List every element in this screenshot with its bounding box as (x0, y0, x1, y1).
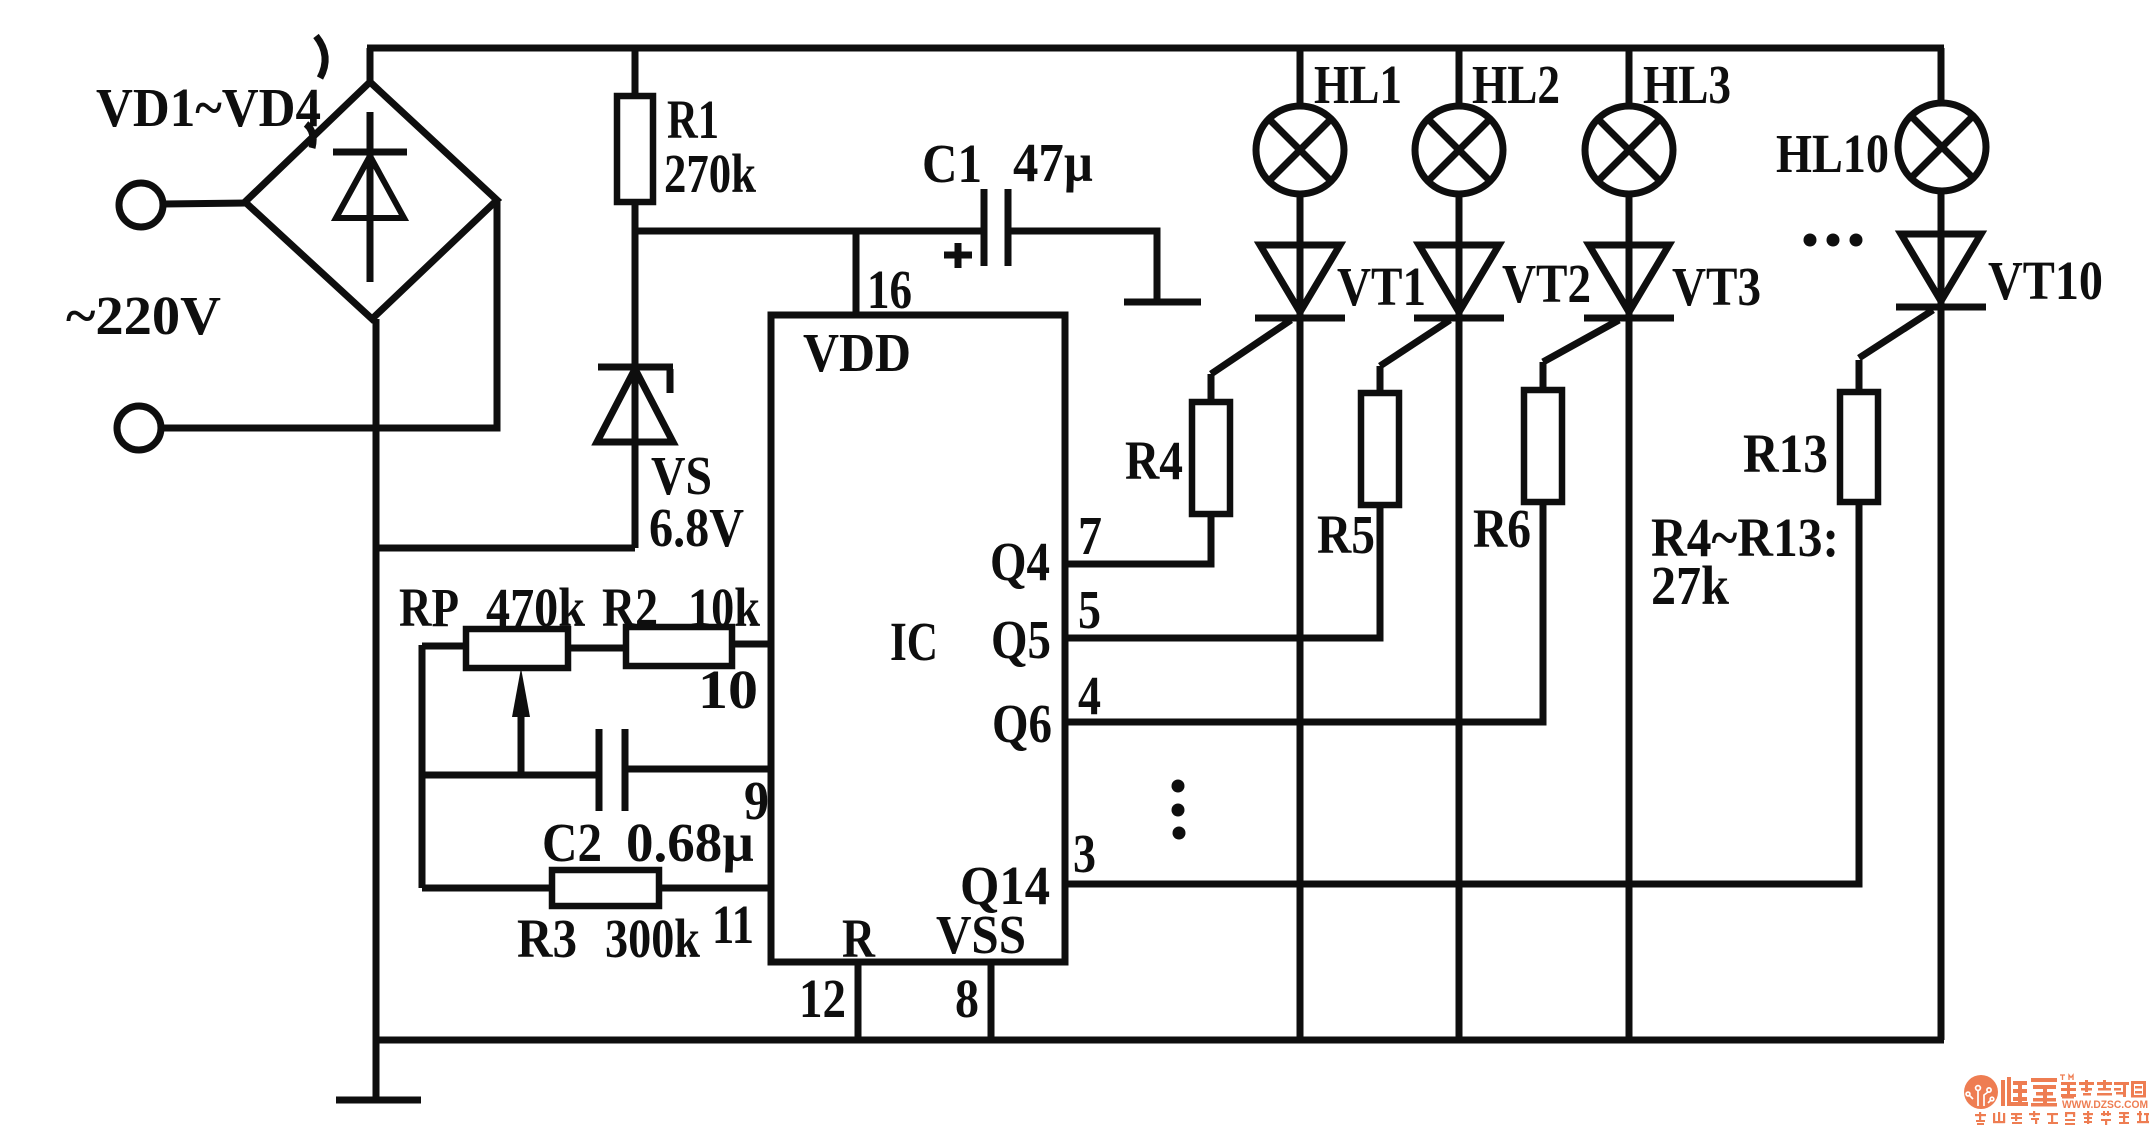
svg-text:27k: 27k (1651, 555, 1729, 616)
resistor R1 (617, 48, 653, 231)
resistor R3 (422, 870, 771, 906)
svg-text:R: R (842, 908, 876, 969)
wire terminal2 to bridge right (161, 202, 497, 428)
watermark tagline glyphs (1975, 1111, 2149, 1125)
svg-text:R1: R1 (667, 89, 719, 150)
svg-text:8: 8 (955, 968, 979, 1029)
svg-text:10k: 10k (688, 577, 760, 638)
zener diode VS (597, 231, 673, 548)
svg-text:R13: R13 (1743, 423, 1828, 484)
pin Q14 wire (1065, 502, 1859, 884)
scan artifact (316, 36, 325, 78)
svg-text:VD1~VD4: VD1~VD4 (96, 77, 321, 138)
watermark brand glyphs (2001, 1077, 2057, 1107)
svg-text:R5: R5 (1317, 504, 1375, 565)
svg-text:R2: R2 (602, 577, 658, 638)
resistor R5 (1361, 320, 1450, 505)
lamp HL3 (1585, 48, 1673, 194)
watermark TM (2060, 1075, 2073, 1080)
pin Q6 wire (1065, 505, 1543, 722)
svg-text:16: 16 (867, 259, 912, 320)
wire VT3 cathode down (1626, 318, 1633, 1040)
thyristor VT2 (1414, 193, 1504, 318)
resistor R13 (1840, 310, 1933, 502)
svg-text:VT2: VT2 (1502, 253, 1591, 314)
wire left net vertical (419, 645, 426, 888)
bridge rectifier VD1~VD4 (245, 82, 497, 319)
svg-text:C2: C2 (542, 812, 602, 873)
svg-text:HL10: HL10 (1776, 123, 1889, 184)
svg-text:VT3: VT3 (1672, 256, 1761, 317)
capacitor C1 (944, 189, 1008, 268)
svg-text:6.8V: 6.8V (649, 497, 744, 558)
svg-text:3: 3 (1073, 823, 1096, 884)
svg-text:~220V: ~220V (66, 285, 221, 346)
capacitor C2 (422, 729, 771, 811)
svg-text:VDD: VDD (803, 322, 911, 383)
svg-text:R6: R6 (1473, 498, 1531, 559)
svg-text:300k: 300k (605, 908, 700, 969)
potentiometer RP (422, 629, 568, 775)
wire pin16 (853, 231, 860, 315)
wire top rail (367, 45, 1944, 52)
wire pin 12 stub (855, 962, 862, 1040)
svg-text:Q6: Q6 (992, 693, 1052, 754)
svg-text:0.68µ: 0.68µ (626, 812, 754, 873)
wire bottom rail (376, 1037, 1944, 1044)
svg-text:4: 4 (1078, 665, 1101, 726)
wire bridge top stub (367, 48, 374, 86)
svg-text:WWW.DZSC.COM: WWW.DZSC.COM (2062, 1099, 2148, 1111)
wire pin 8 stub (988, 962, 995, 1040)
lamp HL1 (1256, 48, 1344, 194)
thyristor VT1 (1255, 193, 1345, 318)
svg-text:RP: RP (399, 577, 459, 638)
svg-text:VT1: VT1 (1337, 256, 1426, 317)
svg-text:R4: R4 (1125, 430, 1183, 491)
horizontal dots (1804, 234, 1863, 247)
resistor R6 (1524, 320, 1619, 502)
watermark logo (1964, 1075, 1998, 1109)
svg-text:12: 12 (799, 968, 846, 1029)
wire VT10 cathode down (1938, 313, 1945, 1040)
svg-text:10: 10 (698, 659, 758, 720)
svg-text:Q4: Q4 (990, 531, 1050, 592)
resistor R4 (1192, 320, 1291, 514)
svg-text:C1: C1 (922, 133, 982, 194)
watermark subtitle glyphs (2061, 1080, 2146, 1099)
thyristor VT10 (1896, 190, 1986, 313)
lamp HL10 (1898, 48, 1986, 191)
terminal 2 (117, 406, 161, 450)
svg-text:VT10: VT10 (1988, 250, 2103, 311)
IC box (771, 315, 1065, 962)
wire terminal1 to bridge (163, 203, 248, 204)
svg-text:5: 5 (1078, 579, 1101, 640)
wire C1 right to ground (1008, 231, 1157, 299)
vertical dots (1172, 780, 1186, 840)
svg-text:7: 7 (1078, 505, 1102, 566)
svg-text:HL3: HL3 (1643, 54, 1731, 115)
wire left vertical (bridge bottom to ground) (373, 319, 380, 1098)
svg-text:270k: 270k (664, 143, 756, 204)
svg-text:HL2: HL2 (1472, 54, 1560, 115)
resistor R2 (568, 627, 771, 666)
pin Q4 wire (1065, 514, 1211, 564)
svg-text:R3: R3 (517, 908, 577, 969)
wire R1 node to C1 (632, 228, 986, 235)
svg-text:Q14: Q14 (960, 855, 1050, 916)
svg-text:IC: IC (890, 611, 938, 672)
wire VT1 cathode down (1297, 318, 1304, 1040)
terminal 1 (119, 183, 163, 227)
svg-text:Q5: Q5 (991, 609, 1051, 670)
wire VT2 cathode down (1456, 318, 1463, 1040)
svg-text:11: 11 (712, 894, 754, 955)
thyristor VT3 (1584, 193, 1674, 318)
ground (336, 1097, 421, 1104)
pin Q5 wire (1065, 505, 1380, 638)
lamp HL2 (1415, 48, 1503, 194)
ground C1 (1124, 299, 1201, 306)
svg-text:47µ: 47µ (1013, 132, 1093, 193)
wire VS bottom to left vertical (376, 545, 635, 552)
svg-text:470k: 470k (486, 577, 585, 638)
svg-text:HL1: HL1 (1314, 54, 1402, 115)
